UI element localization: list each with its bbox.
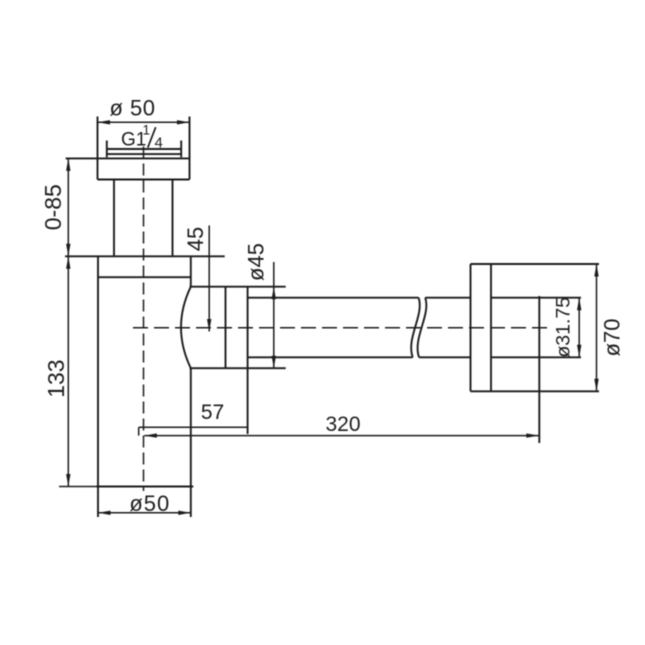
arrow ø50 bottom left [98,511,111,515]
arrow ø50 bottom right [178,511,191,515]
body left side [97,257,99,487]
svg-text:1: 1 [143,123,151,138]
svg-text:ø70: ø70 [600,319,625,357]
outlet boss top line [190,286,286,288]
body top edge with extensions [65,255,225,257]
vertical centerline of body [143,147,145,492]
dim ø45 vertical line [273,262,275,368]
extension line bottom of 133 [59,486,97,488]
outlet nut left edge [225,287,227,369]
pipe top line right of break [425,297,470,299]
thread line upper [107,148,181,150]
svg-text:ø31.75: ø31.75 [553,297,575,358]
dim 45 vertical line [208,225,210,331]
dim 57 line [139,426,248,428]
arrow ø70 up [594,264,598,277]
body outlet fillet arc [181,287,191,369]
wall flange top line with dim extension [471,263,600,265]
arrow ø45 down [272,356,276,369]
horizontal centerline of pipe [133,327,548,329]
arrow ø31.75 down [577,345,581,358]
arrow 320 right [526,433,539,437]
arrow ø70 down [594,379,598,392]
svg-text:320: 320 [325,413,360,436]
dim 320 line [144,435,539,437]
outlet nut right edge and 57/320 extension [247,287,249,434]
body right side upper [190,257,192,287]
arrow 320 left [144,433,157,437]
pipe top line left of break [248,297,419,299]
pipe break curve right [418,298,427,358]
pipe bottom line right of break [419,356,471,358]
arrow ø45 up [272,287,276,300]
arrow 0-85 top [66,158,70,171]
svg-text:ø 50: ø 50 [109,96,155,121]
top nut right side [189,117,191,180]
dim 0-85 / 133 vertical line [67,158,69,486]
top nut left side [97,117,99,180]
fraction slash of G1 1/4 [148,127,156,147]
pipe break curve left [411,298,420,358]
thread line lower [107,153,181,155]
wall flange face right edge [490,264,492,391]
flange bottom edge [98,179,190,181]
arrow ø50 top right [177,120,190,124]
dim 57 left jog [138,427,140,435]
svg-text:45: 45 [183,227,208,251]
body right side lower [190,368,192,486]
wall flange bottom line with dim extension [471,390,600,392]
arrow 133 top [66,256,70,269]
pipe bottom line right of wall flange face [491,356,581,358]
arrow 45 down [207,319,211,332]
thread tick left [106,141,108,158]
bottom dim extension right [190,487,192,518]
svg-text:4: 4 [155,135,163,152]
neck tube left wall [113,180,115,257]
320 dim extension at flange [538,296,540,443]
bottom dim extension left [97,487,99,518]
wall flange face left edge [470,264,472,391]
dim ø50 bottom line [98,512,191,514]
arrow ø50 top left [98,120,111,124]
neck tube right wall [172,180,174,257]
pipe bottom line left of break [248,356,413,358]
svg-text:57: 57 [201,401,224,424]
svg-text:133: 133 [43,359,69,397]
svg-text:0-85: 0-85 [40,184,66,230]
svg-text:ø50: ø50 [129,491,170,516]
dim ø50 top line [98,121,190,123]
thread tick right [180,141,182,158]
svg-text:ø45: ø45 [244,243,269,281]
pipe top line right of wall flange face [491,297,581,299]
arrow 133 bottom [66,474,70,487]
dim ø31.75 vertical line [578,298,580,358]
flange top line with left extension [66,157,190,159]
body band line [98,276,191,278]
arrow ø31.75 up [577,298,581,311]
outlet boss bottom line [190,367,286,369]
body bottom edge [97,486,194,488]
arrow 0-85 bottom [66,244,70,256]
dim ø70 vertical line [596,264,598,391]
